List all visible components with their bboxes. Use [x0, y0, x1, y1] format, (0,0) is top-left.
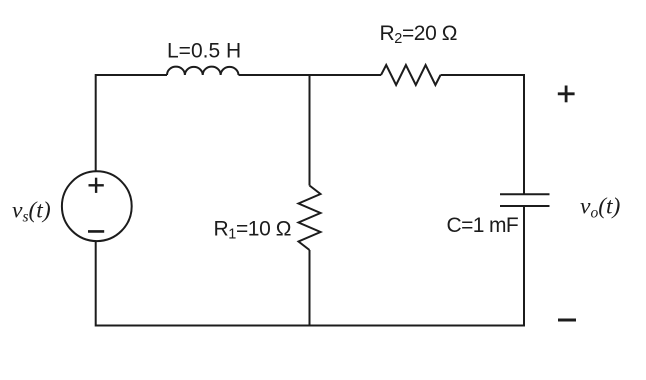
wire middle-bottom segment: [309, 250, 311, 326]
voltage source U1: [62, 171, 132, 241]
svg-text:L=0.5 H: L=0.5 H: [167, 40, 241, 63]
wire top-right segment: [441, 75, 525, 194]
inductor L1: [167, 67, 239, 75]
svg-text:R1=10 Ω: R1=10 Ω: [214, 218, 292, 243]
capacitor C1: [500, 194, 550, 206]
resistor R1: [299, 186, 321, 251]
label C=1 mF: [447, 214, 519, 237]
resistor R2: [381, 65, 441, 85]
svg-text:R2=20 Ω: R2=20 Ω: [380, 22, 458, 47]
wire top-middle segment: [239, 74, 382, 76]
label vs(t): [12, 198, 51, 226]
svg-text:C=1 mF: C=1 mF: [447, 214, 519, 237]
wire bottom-right segment: [310, 206, 525, 326]
label R1=10 Ohm: [214, 218, 292, 243]
plus sign output: [558, 86, 575, 103]
svg-text:vs(t): vs(t): [12, 198, 51, 226]
plus sign inside source: [89, 178, 104, 193]
label L=0.5 H: [167, 40, 241, 63]
label R2=20 Ohm: [380, 22, 458, 47]
minus sign inside source: [88, 230, 104, 233]
svg-text:vo(t): vo(t): [580, 194, 621, 222]
wire middle-top segment: [309, 75, 311, 186]
wire top-left segment: [96, 75, 167, 171]
minus sign output: [558, 319, 576, 322]
label vo(t): [580, 194, 621, 222]
wire left-bottom segment: [96, 241, 310, 325]
